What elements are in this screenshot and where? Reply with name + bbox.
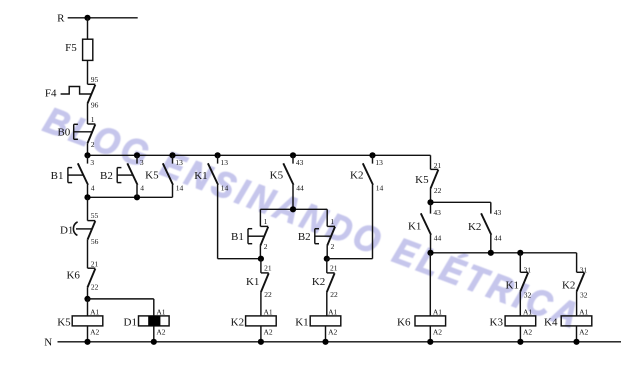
wire K6 coil to N — [429, 326, 431, 342]
wire K1-14 down — [218, 185, 261, 259]
node N-K5coil — [84, 339, 90, 345]
svg-text:A2: A2 — [264, 327, 273, 336]
wire bus3 to K1s — [519, 253, 521, 272]
coil K1 — [295, 308, 341, 337]
wire node to B2n — [326, 209, 328, 226]
svg-text:B0: B0 — [57, 126, 70, 138]
svg-text:22: 22 — [91, 283, 99, 292]
svg-text:22: 22 — [434, 186, 442, 195]
pushbutton B1 (NO 3-4) — [51, 155, 95, 192]
wire K1r to bus3 — [430, 235, 432, 253]
svg-text:13: 13 — [375, 158, 383, 167]
svg-text:13: 13 — [175, 158, 183, 167]
node bus3-K2r — [488, 250, 494, 256]
node N-K3coil — [517, 339, 523, 345]
wire D1 to K6 — [87, 240, 89, 268]
node K2-branch — [258, 256, 264, 262]
wire bus2 to D1 — [87, 197, 89, 220]
svg-text:A2: A2 — [328, 327, 337, 336]
wire bus3 — [431, 252, 577, 254]
svg-text:56: 56 — [91, 237, 99, 246]
wire N bus — [58, 341, 622, 343]
svg-text:K2: K2 — [468, 221, 481, 233]
svg-text:44: 44 — [434, 233, 442, 242]
svg-text:N: N — [44, 336, 52, 348]
label N — [44, 336, 52, 348]
coil K2 — [231, 308, 277, 337]
svg-text:A1: A1 — [264, 308, 273, 317]
wire K2s to K4 coil — [576, 292, 578, 316]
svg-text:R: R — [57, 13, 65, 25]
svg-text:B2: B2 — [298, 231, 311, 243]
wire B1n to node — [259, 246, 261, 259]
contact K1 (NO 43-44) — [408, 202, 442, 242]
svg-text:K1: K1 — [506, 280, 519, 292]
node on R bus — [84, 15, 90, 21]
svg-text:2: 2 — [264, 242, 268, 251]
wire K5c to node — [430, 189, 432, 203]
overload contact F4 (NC 95-96) — [45, 75, 99, 110]
svg-text:K1: K1 — [408, 220, 421, 232]
svg-text:1: 1 — [330, 217, 334, 226]
svg-text:2: 2 — [331, 242, 335, 251]
svg-text:14: 14 — [221, 183, 229, 192]
wire seal-in node bus — [260, 208, 327, 210]
svg-text:32: 32 — [580, 290, 588, 299]
wire K5 coil to N — [87, 326, 89, 342]
svg-text:K2: K2 — [312, 276, 325, 288]
wire to K5 coil — [87, 299, 89, 316]
contact K5 (NC 21-22) — [415, 161, 442, 195]
node N-D1coil — [151, 339, 157, 345]
wire K2 coil to N — [260, 326, 262, 342]
svg-text:F5: F5 — [65, 42, 77, 54]
watermark BLOG ENSINANDO ELETRICA — [38, 99, 587, 338]
wire K2n to K1 coil — [326, 292, 328, 316]
svg-text:96: 96 — [91, 101, 99, 110]
D1 delay arc — [73, 222, 92, 236]
fuse F5 — [65, 39, 93, 60]
contact K1 (NC 31-32) — [506, 265, 532, 299]
coil K5 — [57, 308, 103, 337]
contact K2 (NO 13-14) — [350, 155, 383, 192]
node N-K2coil — [258, 339, 264, 345]
wire K4 coil to N — [576, 326, 578, 342]
wire K2r to bus3 — [490, 235, 492, 253]
svg-text:1: 1 — [264, 217, 268, 226]
svg-text:D1: D1 — [124, 316, 137, 328]
svg-text:44: 44 — [494, 233, 502, 242]
contact K1 (NO 13-14) — [194, 155, 228, 192]
wire bus corner down — [430, 155, 432, 169]
svg-text:K2: K2 — [562, 280, 575, 292]
coil D1 (timer) — [124, 308, 170, 337]
svg-text:A1: A1 — [579, 308, 588, 317]
contact K2 (NC 21-22) — [312, 264, 338, 299]
svg-text:21: 21 — [91, 259, 99, 268]
svg-text:21: 21 — [330, 264, 338, 273]
wire bus2 — [88, 196, 173, 198]
F4 thermal actuator — [61, 87, 92, 95]
svg-text:K5: K5 — [57, 316, 71, 328]
label R — [57, 13, 65, 25]
node N-K6coil — [427, 339, 433, 345]
svg-text:22: 22 — [264, 290, 272, 299]
svg-text:A2: A2 — [90, 327, 99, 336]
node N-K1coil — [322, 339, 328, 345]
coil K4 — [544, 308, 592, 337]
wire K5-14 to bus2 — [172, 185, 174, 197]
wire node to K1n — [260, 259, 262, 273]
node K1-branch — [324, 256, 330, 262]
svg-text:K6: K6 — [66, 269, 80, 281]
node bus3-K1s — [517, 250, 523, 256]
wire R bus — [68, 17, 138, 19]
node bus-K2 — [369, 152, 375, 158]
wire K2-14 down — [327, 185, 373, 259]
svg-text:B2: B2 — [100, 170, 113, 182]
svg-text:95: 95 — [91, 75, 99, 84]
svg-text:B1: B1 — [231, 231, 244, 243]
svg-text:31: 31 — [580, 265, 588, 274]
wire K6 to node — [87, 287, 89, 299]
wire K5-44 down — [292, 185, 294, 209]
svg-text:K2: K2 — [231, 316, 244, 328]
node K5-44 — [290, 206, 296, 212]
svg-text:55: 55 — [91, 211, 99, 220]
node bus-K1 — [215, 152, 221, 158]
wire top bus — [88, 154, 431, 156]
svg-text:A1: A1 — [433, 308, 442, 317]
contact K2 (NO 43-44) — [468, 202, 502, 242]
svg-text:A2: A2 — [156, 327, 165, 336]
wire right node bus — [431, 201, 491, 203]
svg-text:1: 1 — [91, 115, 95, 124]
svg-text:K5: K5 — [145, 169, 159, 181]
svg-text:3: 3 — [90, 158, 94, 167]
wire K1n to K2 coil — [260, 292, 262, 316]
wire B0 to bus — [87, 143, 89, 155]
contact K1 (NC 21-22) — [246, 264, 272, 299]
contact K5 (NO 43-44) — [270, 155, 304, 192]
svg-text:A2: A2 — [433, 327, 442, 336]
coil K3 — [490, 308, 536, 337]
node N-K4coil — [573, 339, 579, 345]
svg-text:13: 13 — [221, 158, 229, 167]
node parallel coils — [84, 296, 90, 302]
svg-text:44: 44 — [296, 183, 304, 192]
node bus-B2 — [134, 152, 140, 158]
svg-text:F4: F4 — [45, 88, 57, 100]
wire B2 to bus2 — [136, 185, 138, 197]
wire node to B1n — [259, 209, 261, 226]
wire to D1 coil branch — [88, 299, 154, 316]
svg-text:31: 31 — [524, 265, 532, 274]
svg-text:3: 3 — [140, 158, 144, 167]
wire R to F5 — [87, 18, 89, 39]
contact K6 (NC 21-22) — [66, 259, 98, 291]
svg-text:B1: B1 — [51, 170, 64, 182]
pushbutton B2 (NC 1-2) — [298, 217, 335, 251]
timer contact D1 (NC 55-56) — [60, 211, 99, 246]
svg-text:A1: A1 — [90, 308, 99, 317]
svg-text:K1: K1 — [295, 316, 308, 328]
svg-text:A1: A1 — [156, 308, 165, 317]
coil K6 — [397, 308, 446, 337]
svg-text:K4: K4 — [544, 316, 558, 328]
svg-text:43: 43 — [296, 158, 304, 167]
contact K2 (NC 31-32) — [562, 265, 588, 299]
svg-text:K1: K1 — [246, 276, 259, 288]
svg-text:4: 4 — [91, 183, 95, 192]
svg-text:D1: D1 — [60, 224, 73, 236]
svg-text:14: 14 — [376, 183, 384, 192]
svg-text:A1: A1 — [523, 308, 532, 317]
svg-text:43: 43 — [433, 208, 441, 217]
wire K3 coil to N — [519, 326, 521, 342]
node bus3-K6 — [427, 250, 433, 256]
wire B2n to node — [326, 246, 328, 259]
wire K1 coil to N — [325, 326, 327, 342]
wire F4 to B0 — [87, 104, 89, 125]
svg-text:14: 14 — [176, 183, 184, 192]
svg-text:K3: K3 — [490, 316, 504, 328]
svg-text:4: 4 — [140, 183, 144, 192]
pushbutton B0 (NC 1-2) — [57, 115, 95, 149]
wire D1 coil to N — [153, 326, 155, 342]
node bus-K5b — [290, 152, 296, 158]
svg-text:21: 21 — [264, 264, 272, 273]
wire B1 to bus2 — [87, 185, 89, 197]
wire K1s to K3 coil — [519, 292, 521, 316]
wire K6 coil drop — [429, 253, 431, 316]
svg-text:32: 32 — [524, 290, 532, 299]
wire bus3 to K2s — [576, 253, 578, 272]
svg-text:21: 21 — [434, 161, 442, 170]
node bus-K5 — [169, 152, 175, 158]
svg-text:A2: A2 — [579, 327, 588, 336]
node K5-22 — [427, 199, 433, 205]
svg-text:K2: K2 — [350, 169, 363, 181]
svg-text:K1: K1 — [194, 170, 207, 182]
svg-text:K6: K6 — [397, 316, 411, 328]
svg-text:K5: K5 — [270, 169, 284, 181]
svg-text:A2: A2 — [523, 327, 532, 336]
wire node to K2n — [326, 259, 328, 273]
svg-text:43: 43 — [494, 208, 502, 217]
svg-text:K5: K5 — [415, 174, 429, 186]
pushbutton B1 (NC 1-2) — [231, 217, 268, 251]
contact K5 (NO 13-14) — [145, 155, 183, 192]
node bus2-B2 — [134, 194, 140, 200]
svg-text:22: 22 — [330, 290, 338, 299]
node bus-B1 — [84, 152, 90, 158]
wire F5 to F4 — [87, 60, 89, 84]
svg-text:A1: A1 — [328, 308, 337, 317]
node bus2-left — [84, 194, 90, 200]
pushbutton B2 (NO 3-4) — [100, 155, 144, 192]
svg-text:2: 2 — [91, 140, 95, 149]
